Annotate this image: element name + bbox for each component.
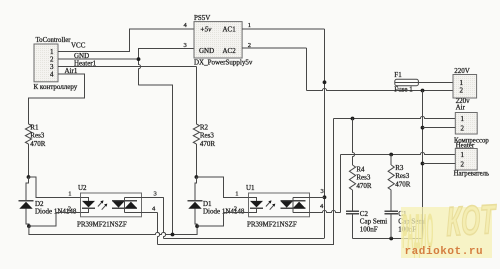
svg-text:Res3: Res3: [30, 132, 45, 140]
svg-text:4: 4: [152, 205, 156, 212]
connector J4 Heater output: [423, 141, 490, 177]
svg-text:470R: 470R: [200, 140, 216, 148]
svg-text:AC2: AC2: [223, 47, 237, 55]
svg-text:100nF: 100nF: [360, 225, 378, 233]
svg-text:3: 3: [321, 188, 324, 195]
opto-triac of U1: [280, 197, 305, 212]
power supply module PS5V DX_PowerSupply5v: [184, 14, 253, 66]
wire U2 pin 4 down to switched air line: [125, 205, 160, 244]
svg-text:Cap Semi: Cap Semi: [360, 218, 387, 226]
wire neutral descent to Air pin2, Heater pin2 and snubber bottom line: [353, 91, 425, 241]
svg-text:C2: C2: [360, 210, 369, 218]
watermark text Radio: [402, 206, 433, 255]
wire GND from J1 pin2 with junction, riser to PS5V pin3, descent to ground rail: [58, 48, 194, 234]
watermark url radiokot.ru: [405, 246, 484, 258]
svg-text:К контроллеру: К контроллеру: [34, 83, 78, 91]
svg-text:1: 1: [248, 22, 251, 29]
svg-text:4: 4: [184, 22, 188, 29]
optocoupler U2 PR39MF21NSZF box: [77, 184, 142, 228]
svg-text:2: 2: [461, 124, 465, 132]
svg-text:470R: 470R: [30, 140, 46, 148]
opto-LED of U1: [249, 197, 276, 212]
svg-text:U1: U1: [246, 184, 255, 192]
svg-text:Нагреватель: Нагреватель: [454, 171, 490, 178]
svg-text:470R: 470R: [356, 182, 372, 190]
wire switched output of U2 to Air pin1 rail: [158, 116, 456, 244]
svg-text:1: 1: [235, 191, 238, 198]
svg-text:2: 2: [461, 160, 465, 168]
svg-text:+5v: +5v: [200, 26, 212, 34]
connector J3 220v Air compressor output: [423, 97, 490, 144]
resistor R4 Res3 470R snubber: [349, 119, 372, 212]
svg-text:1: 1: [461, 115, 465, 123]
svg-text:Res3: Res3: [200, 132, 215, 140]
svg-text:Res3: Res3: [395, 172, 410, 180]
wire U1 pin 4 to heater riser: [293, 203, 341, 212]
resistor R1 Res3 470R: [25, 123, 45, 177]
opto-LED of U2: [81, 197, 108, 212]
watermark radiokot.ru background: [401, 207, 492, 259]
wire U1 pin 3 to live vertical: [293, 188, 325, 197]
svg-text:VCC: VCC: [71, 42, 86, 50]
svg-text:Air: Air: [456, 104, 466, 112]
wire Air1 from J1 pin4 to R1 top: [29, 67, 85, 124]
resistor R2 Res3 470R: [193, 123, 215, 177]
wire U2 pin 3 to live line: [125, 190, 166, 238]
svg-text:Res3: Res3: [356, 174, 371, 182]
svg-text:2: 2: [460, 87, 464, 95]
svg-text:4: 4: [320, 203, 324, 210]
svg-text:470R: 470R: [395, 180, 411, 188]
svg-text:PS5V: PS5V: [194, 14, 210, 22]
svg-text:F1: F1: [394, 71, 402, 79]
svg-text:Fuse 1: Fuse 1: [394, 86, 413, 94]
opto-triac of U2: [112, 197, 137, 212]
svg-text:DX_PowerSupply5v: DX_PowerSupply5v: [194, 59, 253, 67]
svg-text:R1: R1: [30, 123, 39, 131]
svg-text:3: 3: [154, 190, 157, 197]
svg-text:R4: R4: [356, 165, 365, 173]
diode D2 1N4148: [19, 175, 77, 226]
capacitor C2 Cap Semi 100nF: [346, 210, 387, 239]
svg-text:Heater: Heater: [456, 141, 475, 149]
wire R1/D2 node to U2 pin 1: [29, 177, 81, 198]
wire D1 anode node to U1 pin 2: [195, 206, 248, 228]
diode D1 1N4148: [188, 175, 245, 226]
wire VCC from J1 pin1 to PS5V +5v pin 4: [58, 29, 194, 51]
svg-text:Heater1: Heater1: [74, 60, 97, 68]
optocoupler U1 PR39MF21NSZF box: [246, 184, 310, 228]
svg-text:Air1: Air1: [65, 67, 78, 75]
svg-text:1: 1: [460, 79, 464, 87]
svg-text:3: 3: [184, 42, 187, 49]
capacitor C1 Cap Semi 100nF: [385, 210, 426, 239]
svg-text:PR39MF21NSZF: PR39MF21NSZF: [247, 220, 297, 228]
svg-text:ToController: ToController: [36, 37, 72, 44]
svg-text:AC1: AC1: [223, 26, 237, 34]
fuse F1 Fuse 1: [394, 71, 453, 93]
svg-text:PR39MF21NSZF: PR39MF21NSZF: [77, 220, 127, 228]
resistor R3 Res3 470R snubber: [388, 155, 411, 212]
svg-text:2: 2: [234, 206, 237, 213]
wire AC2 neutral: PS5V pin2 right, down, right to 220V pin2: [242, 48, 453, 92]
svg-text:R3: R3: [395, 164, 404, 172]
svg-text:R2: R2: [200, 123, 209, 131]
svg-text:1: 1: [68, 191, 71, 198]
svg-text:1: 1: [461, 151, 465, 159]
wire Heater1 from J1 pin3 to R2 top: [58, 60, 196, 124]
connector J2 220V mains input: [453, 67, 477, 98]
wire D2 anode node to U2 pin 2: [27, 206, 81, 228]
svg-text:220V: 220V: [454, 67, 470, 75]
wire AC1 live: PS5V pin1 right, down to fuse node, down to U1 pin3 and U2 pin3 line: [164, 29, 327, 238]
svg-text:U2: U2: [78, 184, 87, 192]
svg-text:GND: GND: [199, 47, 214, 55]
wire switched output of U1 to Heater pin1 rail: [341, 152, 456, 212]
watermark text KOT: [446, 200, 495, 244]
svg-text:2: 2: [68, 206, 71, 213]
wire R2/D1 node to U1 pin 1: [196, 177, 248, 198]
ground rail between opto sections: [29, 226, 197, 236]
connector J1 ToController (K kontrolleru): [34, 37, 78, 91]
svg-text:4: 4: [50, 71, 54, 79]
